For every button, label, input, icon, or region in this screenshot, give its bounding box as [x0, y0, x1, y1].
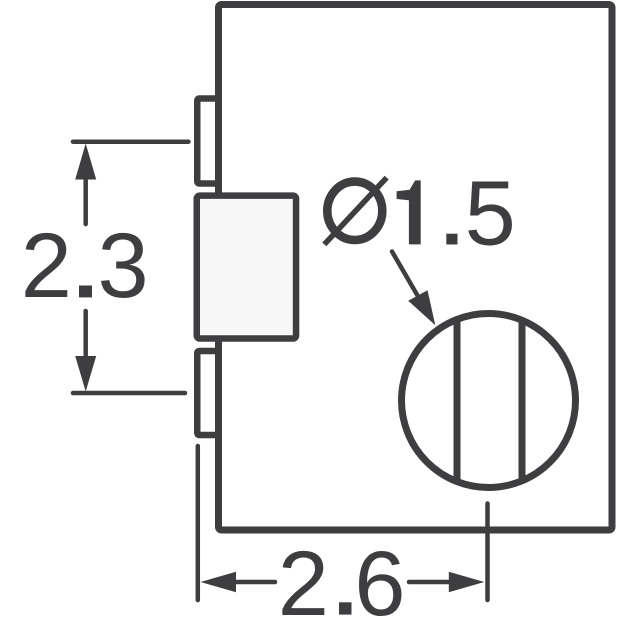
svg-text:.5: .5 [439, 163, 516, 265]
svg-text:2.6: 2.6 [278, 533, 406, 635]
svg-text:2.3: 2.3 [21, 215, 149, 317]
